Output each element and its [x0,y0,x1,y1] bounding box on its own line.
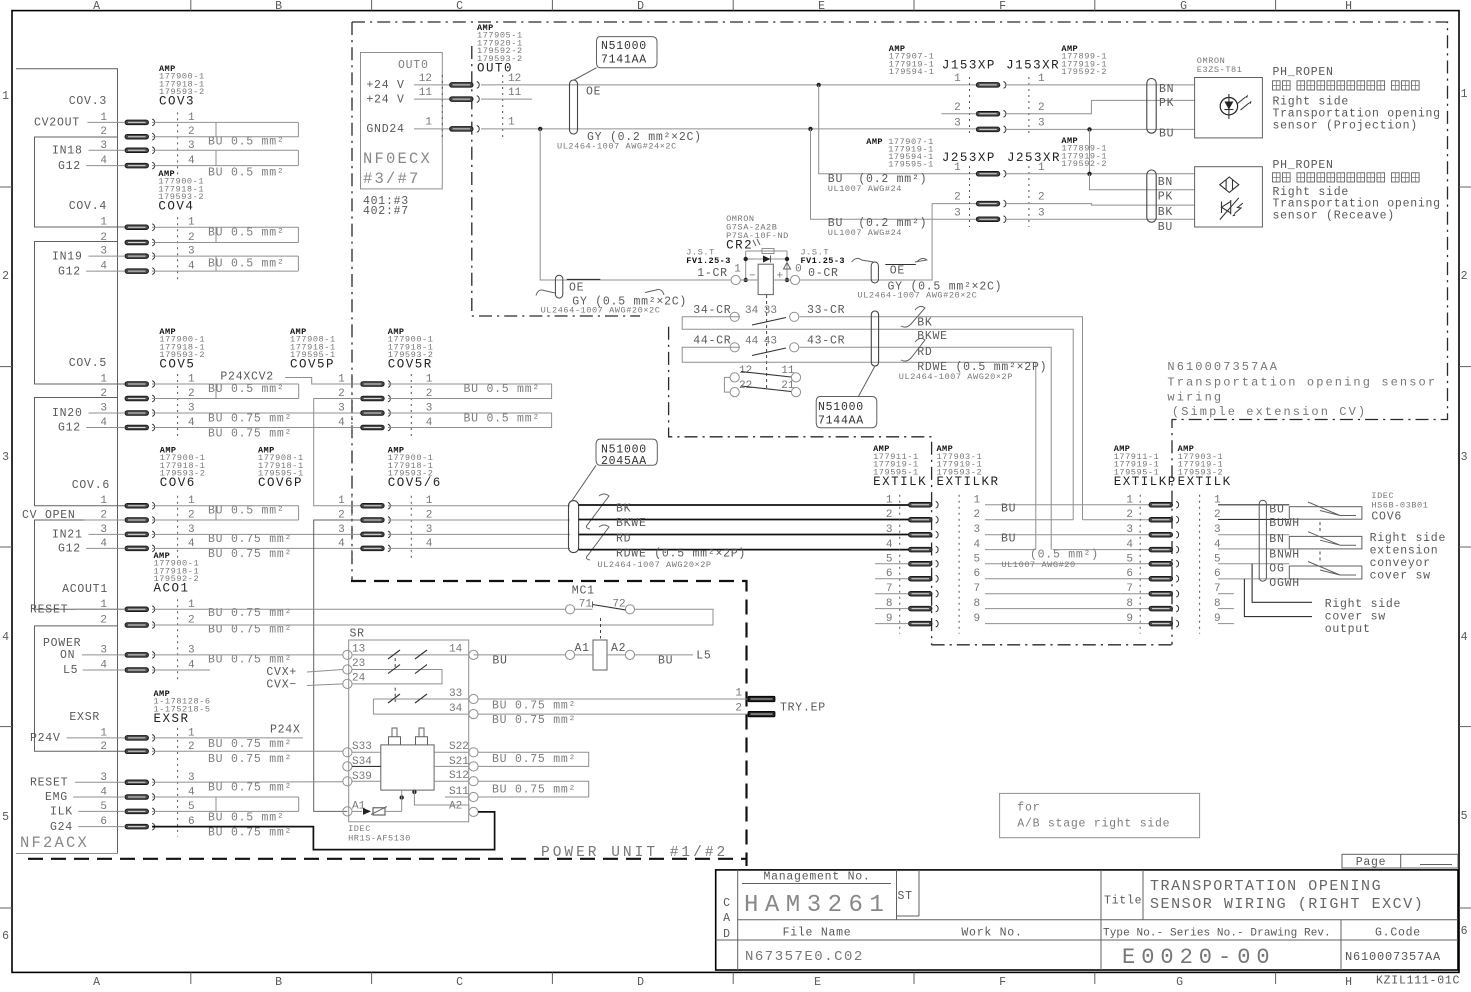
wire L5 to ACO1 [83,669,125,671]
connector EXTILKP/EXTILK pin 6 contact [1149,575,1179,582]
svg-text:GND24: GND24 [366,123,404,136]
connector COV5 pin 3 contact [125,410,155,417]
svg-text:4: 4 [2,631,10,644]
svg-text:IN19: IN19 [52,250,83,263]
svg-text:N67357E0.C02: N67357E0.C02 [745,949,864,965]
svg-text:179592-2: 179592-2 [1061,159,1107,169]
SR internal loop 33/34 [373,699,468,714]
leader 2045AA balloon to shield [572,465,596,500]
SR internal contacts 23/24 [352,670,442,684]
wire COV6 pin3 to COV6P row [152,533,361,535]
svg-text:L5: L5 [696,650,711,663]
svg-text:Right side: Right side [1325,598,1402,611]
svg-text:A2: A2 [449,801,462,813]
svg-text:+24 V: +24 V [366,79,404,92]
svg-text:6: 6 [1126,568,1133,580]
wire EXSR RESET pin3 to S39 [152,781,343,784]
wire COV5/6 pin2 drop to ACO1 pin1 and SR A1 [314,520,361,811]
svg-text:UL1007 AWG#20: UL1007 AWG#20 [1002,560,1076,570]
wires EXTILKR to EXTILKP rows [985,504,1149,506]
connector COV3 pin 1 contact [125,119,155,126]
svg-text:FV1.25-3: FV1.25-3 [801,256,845,266]
svg-text:BU 0.75 mm²: BU 0.75 mm² [208,753,292,766]
relay CR2 suppressor circuit [746,251,787,280]
svg-text:extension: extension [1370,545,1439,558]
wire G12 to COV3 [86,165,125,167]
svg-text:G.Code: G.Code [1375,927,1421,940]
svg-text:2: 2 [100,741,107,753]
connector EXTILK/EXTILKR pin 4 contact [909,546,939,553]
wire COV5/6 pin1 row to cable [388,505,570,507]
svg-text:3: 3 [1038,208,1045,220]
svg-text:E: E [814,976,822,989]
svg-text:C: C [456,976,464,989]
svg-text:BKWE: BKWE [917,330,948,343]
svg-text:1: 1 [886,494,893,506]
shield capsule GY0.5 left [555,275,562,298]
svg-text:BU: BU [658,655,673,668]
wire G12 to COV6 [86,547,125,549]
svg-text:179592-2: 179592-2 [1061,67,1107,77]
twisted mark RD pair top [901,338,925,361]
jp label projection [1273,81,1281,90]
wire CR2 coil to 0-CR and up to J253XP pin2 [773,204,976,280]
title block vertical divider work-no [1100,870,1102,970]
svg-text:OG: OG [1269,563,1284,576]
svg-text:4: 4 [974,539,981,551]
svg-text:KZIL111-01C: KZIL111-01C [1376,975,1460,988]
svg-text:CV OPEN: CV OPEN [22,509,76,522]
svg-text:6: 6 [2,930,10,943]
svg-text:14: 14 [449,644,463,656]
svg-text:179594-1: 179594-1 [889,67,935,77]
wire pair loop COV5 rows [152,383,299,385]
svg-text:RD: RD [616,533,631,546]
title block header band lines [738,919,1458,921]
svg-text:13: 13 [352,644,365,656]
connector EXTILKP/EXTILK pin 2 contact [1149,516,1179,523]
svg-text:33: 33 [764,305,777,317]
svg-text:A1: A1 [575,642,590,655]
svg-text:CR2: CR2 [726,239,753,253]
svg-text:P24XCV2: P24XCV2 [220,371,274,384]
svg-text:ACOUT1: ACOUT1 [62,583,108,596]
svg-text:J253XR: J253XR [1007,151,1061,165]
svg-text:POWER UNIT #1/#2: POWER UNIT #1/#2 [541,845,728,861]
wire branch GND to 1-CR [540,129,731,280]
connector COV5P/COV5R pin 4 contact [361,424,391,431]
svg-text:FV1.25-3: FV1.25-3 [686,256,730,266]
svg-text:43: 43 [764,336,777,348]
svg-text:RDWE (0.5 mm²×2P): RDWE (0.5 mm²×2P) [616,548,746,561]
svg-text:1: 1 [100,217,107,229]
connector ACO1 pin 3 contact [125,652,155,659]
svg-text:EXTILK: EXTILK [1178,475,1232,489]
svg-text:7: 7 [974,583,981,595]
svg-text:43-CR: 43-CR [807,335,845,348]
wire 43-CR to RD drop [800,347,1052,549]
connector COV5P/COV5R pin 3 contact [361,410,391,417]
left rail loop COV4-pin2 to COV5-pin1 [35,242,126,385]
note box for A/B stage right side [1000,793,1200,837]
cable shield capsule 7144AA [871,311,878,366]
svg-text:(Simple extension CV): (Simple extension CV) [1172,405,1367,419]
svg-text:BU 0.5 mm²: BU 0.5 mm² [208,227,285,240]
wire loop S22-S21 [478,752,589,766]
wire branch GND to J253XP pin3 [811,129,977,219]
svg-text:ILK: ILK [50,806,73,819]
svg-text:2: 2 [954,192,961,204]
svg-text:3: 3 [1126,524,1133,536]
svg-text:EXTILKR: EXTILKR [937,475,1000,489]
svg-text:H: H [1345,0,1353,13]
connector COV6P/COV5-6 pin 3 contact [361,531,391,538]
svg-text:CVX+: CVX+ [266,666,297,679]
svg-text:E3ZS-T81: E3ZS-T81 [1197,65,1243,75]
connector COV3 pin 4 contact [125,162,155,169]
svg-text:N51000: N51000 [601,40,647,53]
svg-text:5: 5 [1461,810,1469,823]
mech link dashes cover sw [1319,522,1321,534]
terminal circle 0-CR [791,275,800,284]
connector EXSR pin boundary dashes [177,728,179,837]
svg-text:NF0ECX: NF0ECX [363,150,432,168]
region boundary sensor wiring dash-dot [352,22,1448,645]
connector EXTILK/EXTILKR pin 2 contact [909,516,939,523]
wire IN18 to COV3 [89,149,125,151]
svg-text:E: E [818,0,826,13]
svg-text:7141AA: 7141AA [601,54,647,67]
mechanical link dash CR2 to contacts [766,295,768,390]
svg-text:N610007357AA: N610007357AA [1167,360,1279,374]
svg-text:RD: RD [917,346,932,359]
svg-text:5: 5 [974,553,981,565]
svg-text:2: 2 [974,509,981,521]
svg-text:COV.4: COV.4 [69,200,107,213]
svg-text:4: 4 [886,539,893,551]
svg-text:BUWH: BUWH [1269,517,1300,530]
connector COV4 pin boundary dashes [177,217,179,281]
connector EXSR pin 1 contact [125,735,155,742]
svg-text:3: 3 [1038,118,1045,130]
wire MC1 loop ACO1 pins1-2 [152,609,713,625]
svg-text:0: 0 [795,264,802,276]
svg-text:A: A [93,976,101,989]
wire body bottom drops [400,795,404,799]
wire S39 into body [352,780,381,782]
wire branch +24V to J253XP pin1 [819,85,977,174]
wire stubs EXTILK right pins7-9 [1218,593,1234,595]
page box [1342,854,1458,868]
wire EXTILKP pin4 from RD drop [1053,549,1149,551]
svg-text:1-CR: 1-CR [697,267,728,280]
svg-text:COV6P: COV6P [258,476,303,490]
svg-text:UL1007 AWG#24: UL1007 AWG#24 [828,228,902,238]
svg-text:EXSR: EXSR [154,712,190,726]
svg-text:HAM3261: HAM3261 [744,892,890,919]
svg-text:BU 0.75 mm²: BU 0.75 mm² [208,782,292,795]
svg-text:9: 9 [1126,613,1133,625]
wire G24 junction [312,827,314,829]
svg-text:44-CR: 44-CR [693,335,731,348]
title block Title label cell [1142,870,1144,920]
svg-text:+24 V: +24 V [366,94,404,107]
connector COV6 pin 3 contact [125,531,155,538]
wire pair loop COV4 rows [152,255,298,257]
svg-text:3: 3 [2,451,10,464]
connector EXTILKP/EXTILK pin 4 contact [1149,546,1179,553]
svg-text:BU 0.75 mm²: BU 0.75 mm² [492,784,576,797]
connector COV6 pin 1 contact [125,502,155,509]
wire J153XR pin2 to sensor PK [1005,100,1195,113]
OUT0 pin1 contact [450,125,480,132]
wire loop 33-CR row [682,317,1073,520]
balloon N51000 7141AA [597,37,658,68]
wire COV5/6 pin3 row to cable RD [388,533,570,535]
connector COV6 pin 2 contact [125,517,155,524]
svg-text:E0020-00: E0020-00 [1122,945,1276,970]
connector EXSR pin 6 contact [125,823,155,830]
connector COV6P/COV5-6 pin 2 contact [361,517,391,524]
svg-text:COV5R: COV5R [388,358,433,372]
connector EXTILK/EXTILKR pin 1 contact [909,501,939,508]
wire SR33 to TRY.EP pin1 [478,698,748,700]
title block outer box [716,870,1458,970]
wire pair loop COV4 rows [152,226,298,228]
svg-text:11: 11 [508,87,522,99]
svg-text:J153XP: J153XP [942,59,996,73]
ruler column ticks top [190,0,192,11]
svg-text:Work No.: Work No. [961,927,1022,940]
connector ACO1 pin 4 contact [125,667,155,674]
svg-text:BN: BN [1159,83,1174,96]
wire ILK to EXSR [78,810,125,812]
svg-text:Type No.- Series No.- Drawing: Type No.- Series No.- Drawing Rev. [1103,928,1331,940]
J253 pin1 contact [976,170,1006,177]
svg-text:7: 7 [1126,583,1133,595]
connector COV4 pin 2 contact [125,239,155,246]
wire EXTILKR pin2 from BKWE drop [985,519,1073,521]
svg-text:IN20: IN20 [52,407,83,420]
svg-text:S33: S33 [352,741,372,753]
svg-text:0-CR: 0-CR [808,267,839,280]
wire RDWE cable to EXTILK pin4 [579,549,909,551]
svg-text:PH_ROPEN: PH_ROPEN [1273,66,1334,79]
svg-text:RESET: RESET [30,604,68,617]
svg-text:for: for [1017,802,1040,815]
connector EXTILKP/EXTILK boundary dashes [1139,495,1141,634]
svg-text:71: 71 [579,599,593,611]
wire COV6 pin4 to COV6P row [152,547,361,549]
svg-text:D: D [637,976,645,989]
svg-text:N51000: N51000 [818,401,864,414]
svg-text:8: 8 [1126,598,1133,610]
svg-text:S11: S11 [449,786,469,798]
svg-text:2: 2 [1038,192,1045,204]
wire S34 into body [352,765,381,767]
wire EXTILK pin3 to cover sw2 [1218,534,1289,536]
svg-text:1: 1 [734,264,741,276]
wire GND24 pin1 [414,128,450,130]
junction dot GND branch CR [538,127,542,131]
svg-text:TRY.EP: TRY.EP [780,702,826,715]
twisted tie marks left [536,290,555,295]
link stubs 12/22 [724,377,730,392]
svg-text:D: D [723,928,731,941]
connector COV6P/COV5-6 boundary dashes [351,496,353,559]
connector EXTILK/EXTILKR boundary dashes [899,495,901,634]
svg-text:3: 3 [338,403,345,415]
wire +24V pin12 [414,84,450,86]
connector OUT0 boundary dashes [441,75,443,140]
wire BK cable to EXTILK pin1 [579,504,909,506]
wire body to S22 [434,751,469,753]
svg-text:5: 5 [2,811,10,824]
wire RESET to EXSR [75,781,125,783]
wire coil A2 to L5 [607,654,625,656]
switch lever sw2 [1308,532,1356,546]
svg-text:1: 1 [2,90,10,103]
svg-text:cover sw: cover sw [1370,570,1431,583]
svg-text:Title: Title [1104,895,1142,908]
wire body to S21 [434,765,469,767]
svg-text:PH_ROPEN: PH_ROPEN [1273,159,1334,172]
sensor box receiver [1195,167,1263,227]
svg-text:2: 2 [100,232,107,244]
svg-text:RESET: RESET [30,777,68,790]
cable shield capsule 7141AA [570,80,578,134]
wire J153XR pin3 to sensor BU [1005,128,1195,130]
twisted pair mark BK/BKWE [586,494,609,529]
svg-text:BU 0.5 mm²: BU 0.5 mm² [464,383,541,396]
connector EXTILK/EXTILKR pin 9 contact [909,620,939,627]
svg-text:G12: G12 [58,160,81,173]
svg-text:A: A [723,912,731,925]
connector EXSR pin 2 contact [125,748,155,755]
svg-text:11: 11 [781,365,795,377]
svg-text:11: 11 [419,87,433,99]
svg-text:COV.3: COV.3 [69,95,107,108]
svg-text:cover sw: cover sw [1325,611,1386,624]
SR internal contact row13-14 [352,654,469,656]
SR body plug symbols [389,728,401,745]
svg-text:1: 1 [974,494,981,506]
svg-text:4: 4 [1126,539,1133,551]
connector COV6 pin boundary dashes [177,496,179,559]
junction dot GND branch J253 [808,127,812,131]
connector COV4 pin 3 contact [125,253,155,260]
wire stub S11 [445,796,469,798]
svg-text:EMG: EMG [45,791,68,804]
svg-text:7144AA: 7144AA [818,415,864,428]
svg-text:BU 0.75 mm²: BU 0.75 mm² [208,533,292,546]
connector COV4 pin 4 contact [125,268,155,275]
svg-text:BU: BU [1001,503,1016,516]
connector EXTILKP/EXTILK pin 3 contact [1149,531,1179,538]
wire P24XCV2 to COV5P pin1 [285,378,361,385]
OUT0 pin11 contact [450,96,480,103]
wire G12 to COV4 [86,270,125,272]
svg-text:IDEC: IDEC [1371,491,1394,501]
svg-text:File Name: File Name [783,927,852,940]
wire J153XR pin1 to sensor BN [1005,84,1195,86]
connector J153 dashes [969,77,971,137]
svg-text:UL2464-1007 AWG#20×2C: UL2464-1007 AWG#20×2C [541,306,661,316]
svg-text:G12: G12 [58,543,81,556]
wire CV2OUT to COV3 [87,121,125,123]
svg-text:44: 44 [745,336,759,348]
relay unit SR box [349,640,469,822]
svg-text:3: 3 [338,524,345,536]
svg-text:D: D [637,0,645,13]
connector COV5P/COV5R pin 1 contact [361,381,391,388]
sensor symbol projection emitter [1220,98,1237,115]
svg-text:G: G [1180,0,1188,13]
connector EXTILKP/EXTILK pin 1 contact [1149,501,1179,508]
svg-text:4: 4 [338,538,345,550]
cable capsule sensor2 [1147,170,1156,222]
svg-text:G12: G12 [58,422,81,435]
shield capsule GY0.5 right [871,262,878,283]
svg-text:BU 0.75 mm²: BU 0.75 mm² [492,753,576,766]
sensor symbol photodiode [1222,200,1231,215]
cable capsule cover switch [1259,500,1266,581]
mech link dash MC1 to coil [600,618,602,639]
twisted mark BK pair top [901,306,925,327]
svg-text:−: − [749,271,756,283]
wire EXSR pin2 to S33 [152,750,343,752]
svg-text:1: 1 [425,117,432,129]
connector COV3 pin 3 contact [125,147,155,154]
wire G24 to EXSR [78,826,125,828]
connector COV6P/COV5-6 pin 1 contact [361,502,391,509]
connector COV6 pin 4 contact [125,545,155,552]
svg-text:OUT0: OUT0 [398,59,429,72]
svg-text:H: H [1345,976,1353,989]
connector EXTILK/EXTILKR pin 5 contact [909,560,939,567]
SR mech link dashes [394,688,396,702]
svg-text:SR: SR [350,628,365,641]
wire J253XR pin3 to sensor BU2 [1005,218,1195,220]
svg-text:1: 1 [1038,162,1045,174]
junction dot pin1 J253 [1087,172,1091,176]
wire BU drop to J253 pin1 row [1089,129,1091,173]
svg-text:#3/#7: #3/#7 [363,170,421,188]
svg-text:1: 1 [1038,73,1045,85]
svg-text:UL2464-1007 AWG20×2P: UL2464-1007 AWG20×2P [598,560,712,570]
svg-text:BU 0.5 mm²: BU 0.5 mm² [208,258,285,271]
svg-text:CVX−: CVX− [266,679,297,692]
wire EXTILK pin5 to cover sw3 with output tap [1218,563,1289,565]
wire J253XR pin1 to sensor BN2 [1005,173,1195,175]
wire COV5P pin2 drop to COV5/6 pin1 [314,399,361,506]
left rail loop COV3-pin2 to COV4-pin1 [35,137,126,227]
svg-text:J153XR: J153XR [1006,59,1060,73]
terminal circle 1-CR [731,275,740,284]
svg-text:EXSR: EXSR [69,711,100,724]
svg-text:TRANSPORTATION OPENING: TRANSPORTATION OPENING [1150,878,1382,895]
connector COV3 pin boundary dashes [177,112,179,175]
twisted pair mark RD/RDWE [586,525,609,560]
cable shield 2045AA capsule [569,501,579,553]
wire G12 to COV5 [86,427,125,429]
connector EXTILKP/EXTILK pin 9 contact [1149,620,1179,627]
connector COV5 pin boundary dashes [177,374,179,438]
balloon N51000 2045AA [596,439,657,465]
svg-text:3: 3 [1461,451,1469,464]
title block G.Code header [1340,920,1342,970]
svg-text:BU 0.5 mm²: BU 0.5 mm² [208,505,285,518]
